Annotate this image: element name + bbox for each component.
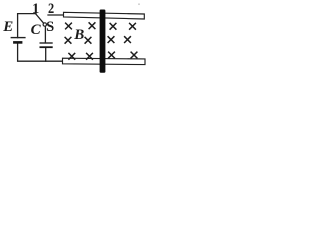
switch S lever (36, 14, 44, 23)
wire battery bottom to corner and bottom run to rail (18, 43, 64, 61)
wire battery top to corner to contact 1 (18, 14, 36, 38)
conducting rod on rails (100, 10, 106, 73)
capacitor C bottom plate (40, 46, 53, 48)
field cross row3 c4 (131, 52, 138, 59)
field cross row3 c3 (108, 52, 115, 59)
label 2 (contact) (48, 2, 54, 17)
field cross row2 c3 (108, 36, 115, 43)
field cross row3 c1 (68, 53, 75, 60)
battery E short thick plate (13, 41, 22, 44)
field cross row1 c4 (129, 23, 136, 30)
field cross row2 c4 (124, 36, 131, 43)
label S (switch) (46, 20, 54, 35)
battery E long plate (11, 37, 26, 39)
label C (capacitor) (31, 23, 41, 38)
field cross row3 c2 (86, 53, 93, 60)
field cross row2 c2 (85, 37, 92, 44)
faint scan speck (138, 3, 140, 5)
capacitor C top plate (40, 42, 53, 44)
label B (magnetic field) (74, 28, 84, 43)
switch S pivot circle (43, 23, 46, 26)
field cross row1 c2 (89, 22, 96, 29)
wire contact 2 to top rail (48, 14, 64, 16)
bottom rail (double line) (63, 58, 146, 64)
field cross row1 c3 (110, 23, 117, 30)
top rail (double line) (64, 12, 145, 19)
wire pivot to capacitor top stem (44, 26, 46, 43)
label 1 (contact) (32, 2, 39, 17)
wire capacitor bottom stem (45, 48, 47, 61)
field cross row2 c1 (65, 37, 72, 44)
label E (battery) (3, 20, 13, 35)
field cross row1 c1 (65, 23, 72, 30)
